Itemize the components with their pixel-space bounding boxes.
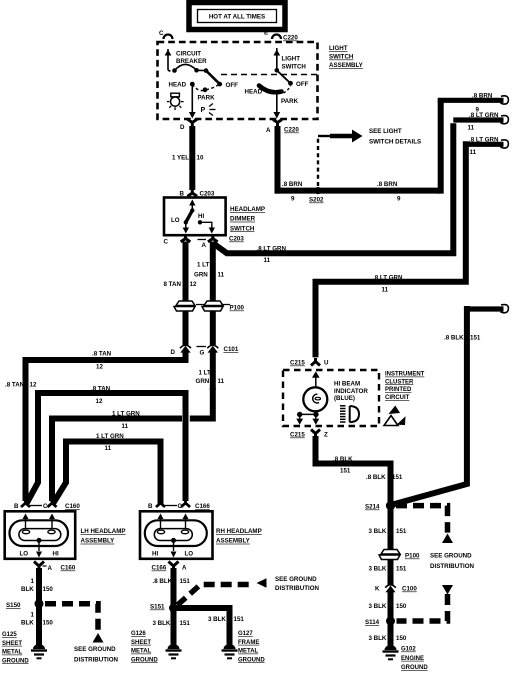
svg-text:SWITCH: SWITCH (282, 64, 307, 71)
svg-text:FRAME: FRAME (238, 640, 259, 646)
svg-text:G102: G102 (401, 647, 416, 653)
printed circuit icon (340, 406, 359, 422)
svg-text:S150: S150 (6, 602, 21, 609)
label LH HEADLAMP ASSEMBLY (81, 528, 126, 545)
svg-text:HEAD: HEAD (169, 82, 187, 89)
svg-text:.8 BRN: .8 BRN (282, 181, 303, 188)
LH headlamp connector B (fork) (14, 500, 30, 510)
svg-text:12: 12 (96, 398, 103, 405)
svg-text:S202: S202 (309, 197, 324, 204)
svg-text:A: A (182, 565, 187, 572)
svg-text:PRINTED: PRINTED (385, 387, 412, 393)
connector A (C203 bottom) (198, 236, 245, 250)
svg-text:OFF: OFF (226, 82, 239, 89)
svg-text:GROUND: GROUND (131, 657, 158, 663)
wire .8 BRN 9 (S202 up to right edge hook) (438, 92, 509, 193)
svg-text:DISTRIBUTION: DISTRIBUTION (275, 585, 320, 592)
connector C (C203 bottom) (164, 236, 191, 246)
svg-text:CLUSTER: CLUSTER (385, 379, 414, 385)
svg-text:1 LT GRN: 1 LT GRN (112, 410, 140, 417)
svg-text:SHEET: SHEET (2, 641, 22, 647)
svg-text:11: 11 (264, 257, 271, 264)
svg-text:A: A (48, 565, 53, 572)
hook terminal (.8 LT GRN upper right) (453, 112, 508, 132)
svg-text:151: 151 (396, 566, 407, 573)
svg-text:METAL: METAL (238, 649, 259, 655)
svg-text:.8 LT GRN: .8 LT GRN (469, 112, 499, 119)
svg-text:11: 11 (218, 378, 225, 385)
svg-text:G127: G127 (238, 631, 253, 637)
grommet P100 (lower) (379, 550, 420, 560)
wire 1 LT GRN (P100 to C101-G) (210, 311, 216, 345)
connector E / C220 (top) (264, 30, 298, 42)
svg-text:K: K (375, 586, 380, 593)
wire 8 BLK 151 (hook down to S214) (391, 306, 481, 505)
svg-text:11: 11 (122, 423, 129, 430)
svg-text:DISTRIBUTION: DISTRIBUTION (74, 657, 119, 664)
svg-text:GRN: GRN (196, 378, 210, 385)
svg-text:.8 LT GRN: .8 LT GRN (257, 246, 287, 253)
LH headlamp assembly box (5, 511, 76, 559)
connector A / C220 (bottom of light switch box) (266, 120, 299, 135)
svg-text:C: C (159, 30, 164, 37)
svg-text:P: P (201, 107, 206, 114)
svg-text:B: B (14, 503, 19, 510)
svg-text:.8 TAN: .8 TAN (5, 382, 25, 389)
svg-text:3 BLK: 3 BLK (369, 566, 387, 573)
svg-text:C160: C160 (61, 565, 76, 572)
light switch HEAD/OFF/PARK (right) (245, 48, 309, 119)
grommet P100 (left pair) (174, 301, 245, 312)
connector B / C203 (180, 190, 215, 198)
svg-text:BLK: BLK (21, 620, 34, 627)
LH headlamp connector C (fork) (30, 500, 80, 510)
svg-text:1 YEL: 1 YEL (172, 155, 189, 162)
svg-text:.8 TAN: .8 TAN (91, 386, 111, 393)
svg-text:151: 151 (340, 468, 351, 475)
dimmer feed switch HEAD/OFF/PARK (left) (169, 82, 239, 119)
hi beam indicator bulb (296, 371, 368, 425)
svg-text:151: 151 (392, 474, 403, 481)
svg-text:C166: C166 (195, 503, 210, 510)
label LIGHT SWITCH ASSEMBLY (329, 45, 364, 69)
park lamp icon (167, 93, 184, 110)
wire 8 TAN 12 (C203-C down to P100) (164, 242, 197, 303)
svg-text:1 LT GRN: 1 LT GRN (96, 433, 124, 440)
svg-text:GROUND: GROUND (238, 657, 265, 663)
dashed run to ground distribution (S214) (396, 506, 475, 570)
svg-text:G: G (200, 350, 205, 357)
svg-text:DISTRIBUTION: DISTRIBUTION (430, 563, 475, 570)
connector C101 pin D (171, 345, 192, 356)
svg-text:C160: C160 (65, 503, 80, 510)
wire .8 LT GRN (hook down, left, down to C215-U) (316, 141, 466, 357)
svg-text:PARK: PARK (281, 98, 299, 105)
dashed run from ground distribution (C100/S114) (397, 585, 454, 621)
svg-text:11: 11 (470, 149, 477, 156)
ground G127 (222, 631, 266, 663)
connector C (top of light switch box) (159, 30, 173, 39)
wire 1 LT GRN 11 (LH headlamp C to RH headlamp B) row4 (53, 433, 161, 504)
svg-text:SWITCH DETAILS: SWITCH DETAILS (369, 139, 421, 146)
svg-text:CIRCUIT: CIRCUIT (385, 395, 410, 401)
svg-text:ASSEMBLY: ASSEMBLY (329, 62, 364, 69)
ESD warning triangles (384, 406, 406, 426)
svg-text:SHEET: SHEET (131, 640, 151, 646)
hook terminal .8 BLK 151 (right edge) (467, 305, 509, 313)
svg-text:.8 LT GRN: .8 LT GRN (373, 275, 403, 282)
connector C215 pin U (290, 358, 329, 367)
svg-text:(BLUE): (BLUE) (334, 395, 355, 402)
svg-text:11: 11 (468, 125, 475, 132)
svg-text:8 TAN: 8 TAN (164, 281, 182, 288)
svg-text:ASSEMBLY: ASSEMBLY (81, 538, 116, 545)
ground G126 (131, 631, 182, 663)
label HEADLAMP DIMMER SWITCH (230, 206, 265, 232)
svg-text:12: 12 (30, 382, 37, 389)
svg-text:PARK: PARK (198, 95, 216, 102)
svg-text:D: D (180, 124, 185, 131)
ground G102 (383, 645, 429, 671)
svg-text:S151: S151 (150, 604, 165, 611)
svg-text:1 LT: 1 LT (197, 262, 209, 269)
svg-text:12: 12 (96, 364, 103, 371)
connector C100 pin K (375, 585, 417, 593)
RH connector A / C166 (bottom) (152, 562, 188, 572)
svg-text:C220: C220 (284, 127, 299, 134)
headlamp dimmer switch U-box (164, 198, 226, 236)
svg-text:ASSEMBLY: ASSEMBLY (216, 538, 251, 545)
svg-text:BLK: BLK (21, 586, 34, 593)
svg-text:LIGHT: LIGHT (329, 45, 348, 52)
wire .8 BRN 9 (C220-A down and right to S202) (275, 126, 441, 203)
svg-text:.8 LT GRN: .8 LT GRN (469, 136, 499, 143)
RH headlamp assembly box (140, 511, 213, 559)
svg-text:1 LT: 1 LT (199, 370, 211, 377)
svg-text:SEE GROUND: SEE GROUND (275, 576, 317, 583)
svg-text:.8 BRN: .8 BRN (472, 92, 493, 99)
svg-text:ENGINE: ENGINE (401, 656, 424, 662)
svg-text:.8 TAN: .8 TAN (92, 351, 112, 358)
svg-text:11: 11 (105, 445, 112, 452)
RH headlamp connector C (fork) (165, 500, 210, 510)
svg-text:C203: C203 (229, 236, 244, 243)
svg-text:3 BLK: 3 BLK (153, 620, 171, 627)
ground G125 (2, 632, 47, 664)
dashed run to ground distribution (S150) (45, 604, 119, 664)
wire 3 BLK 151 (S214 to P100) (369, 506, 407, 549)
svg-text:HI: HI (53, 551, 59, 558)
svg-text:LIGHT: LIGHT (282, 56, 301, 63)
hook terminal .8 LT GRN 11 (third, to instrument cluster) (466, 136, 509, 156)
svg-text:D: D (171, 349, 176, 356)
power feed box HOT AT ALL TIMES (189, 3, 285, 30)
svg-text:HOT AT ALL TIMES: HOT AT ALL TIMES (209, 14, 265, 21)
svg-text:HI BEAM: HI BEAM (334, 380, 360, 387)
svg-text:Z: Z (324, 432, 328, 439)
svg-text:BREAKER: BREAKER (176, 58, 207, 65)
svg-text:151: 151 (234, 616, 245, 623)
label INSTRUMENT CLUSTER PRINTED CIRCUIT (385, 372, 425, 401)
splice S202 (309, 187, 324, 204)
svg-text:METAL: METAL (2, 650, 23, 656)
P indicator icon (201, 104, 216, 116)
svg-text:151: 151 (470, 335, 481, 342)
svg-text:C: C (164, 239, 169, 246)
svg-text:S114: S114 (365, 619, 380, 626)
svg-text:GRN: GRN (194, 272, 208, 279)
wire .8 BLK 151 (C215-Z down right to S214) (316, 436, 403, 506)
wire 1 BLK 150 (S150 to G125) (21, 604, 53, 647)
connector C215 pin Z (290, 430, 328, 439)
svg-text:LO: LO (185, 551, 194, 558)
svg-text:.8 BLK: .8 BLK (333, 456, 353, 463)
svg-text:9: 9 (476, 107, 480, 114)
svg-text:C215: C215 (290, 360, 305, 367)
dashed leader from S202 (318, 136, 330, 186)
svg-text:10: 10 (197, 155, 204, 162)
svg-text:9: 9 (397, 196, 401, 203)
svg-text:LO: LO (171, 217, 180, 224)
svg-text:CIRCUIT: CIRCUIT (176, 51, 201, 58)
RH headlamp connector B (fork) (148, 500, 165, 510)
svg-text:HEADLAMP: HEADLAMP (230, 206, 265, 213)
splice S114 (365, 617, 395, 627)
wire 1 LT GRN 11 (C101-G down) (196, 351, 225, 390)
wire 3 BLK 150 (C100 to S114) (369, 590, 407, 621)
svg-text:9: 9 (291, 196, 295, 203)
svg-text:GROUND: GROUND (401, 665, 428, 671)
svg-text:150: 150 (43, 586, 54, 593)
svg-text:150: 150 (396, 603, 407, 610)
wire 1 LT GRN 11 (C203-A down to P100) (194, 242, 225, 303)
wire .8 TAN 12 (LH headlamp B to RH headlamp C) row2 (27, 386, 186, 504)
svg-text:151: 151 (180, 620, 191, 627)
svg-text:SWITCH: SWITCH (230, 225, 255, 232)
wire 1 LT GRN 11 (C101-G to LH headlamp C) row3 (52, 388, 213, 501)
svg-text:A: A (202, 242, 207, 249)
svg-text:.8 BLK: .8 BLK (444, 335, 464, 342)
svg-text:DIMMER: DIMMER (230, 216, 256, 223)
svg-text:C166: C166 (152, 565, 167, 572)
svg-text:P100: P100 (405, 553, 420, 560)
svg-text:INSTRUMENT: INSTRUMENT (385, 372, 425, 378)
svg-text:E: E (264, 30, 268, 37)
LH connector A / C160 (bottom) (34, 562, 76, 573)
svg-text:HI: HI (198, 213, 204, 220)
dashed run to ground distribution (S151) (178, 576, 320, 605)
svg-text:OFF: OFF (296, 81, 309, 88)
circuit breaker (165, 49, 223, 87)
connector C101 pin G (197, 345, 239, 356)
svg-text:3 BLK: 3 BLK (369, 603, 387, 610)
svg-text:151: 151 (180, 578, 191, 585)
svg-text:151: 151 (396, 528, 407, 535)
svg-text:C220: C220 (283, 35, 298, 42)
svg-text:GROUND: GROUND (2, 658, 29, 664)
svg-text:U: U (324, 360, 329, 367)
svg-text:C215: C215 (290, 432, 305, 439)
svg-text:12: 12 (190, 281, 197, 288)
wire 1 BLK 150 (LH A to S150) (21, 568, 53, 604)
splice S151 (150, 604, 178, 613)
svg-text:1: 1 (31, 612, 35, 619)
svg-text:150: 150 (43, 620, 54, 627)
svg-text:A: A (266, 127, 271, 134)
wire 3 BLK 150 (S114 to G102) (369, 621, 407, 648)
svg-text:SEE GROUND: SEE GROUND (74, 646, 116, 653)
splice S150 (6, 599, 44, 609)
svg-text:.8 BLK: .8 BLK (153, 578, 173, 585)
svg-text:G126: G126 (131, 631, 146, 637)
svg-text:LO: LO (20, 551, 29, 558)
wire .8 TAN 12 (C101-D left and down to LH headlamp B) row1 (5, 350, 186, 501)
svg-text:INDICATOR: INDICATOR (334, 388, 368, 395)
svg-text:.8 BRN: .8 BRN (377, 181, 398, 188)
svg-text:1: 1 (31, 578, 35, 585)
svg-text:HI: HI (152, 551, 158, 558)
splice S214 (365, 501, 395, 511)
svg-text:RH HEADLAMP: RH HEADLAMP (216, 528, 262, 535)
wire 3 BLK 151 (S151 branch to G127) (174, 608, 245, 647)
svg-text:SEE GROUND: SEE GROUND (430, 553, 472, 560)
label RH HEADLAMP ASSEMBLY (216, 528, 262, 545)
instrument cluster dashed box (283, 370, 379, 426)
svg-text:11: 11 (218, 272, 225, 279)
svg-text:C100: C100 (402, 586, 417, 593)
svg-text:B: B (148, 503, 153, 510)
svg-text:SEE LIGHT: SEE LIGHT (369, 128, 402, 135)
svg-text:3 BLK: 3 BLK (208, 616, 226, 623)
connector D (bottom of light switch box) (180, 119, 197, 131)
svg-text:.8 BLK: .8 BLK (366, 474, 386, 481)
wire 8 TAN (P100 to C101-D) (183, 311, 189, 345)
svg-text:11: 11 (382, 287, 389, 294)
svg-text:P100: P100 (230, 305, 245, 312)
svg-text:SWITCH: SWITCH (329, 54, 354, 61)
svg-text:150: 150 (396, 635, 407, 642)
wire 3 BLK 151 (P100 to C100) (369, 559, 407, 585)
svg-text:LH HEADLAMP: LH HEADLAMP (81, 528, 126, 535)
wire 1 YEL 10 (172, 126, 204, 190)
svg-text:G125: G125 (2, 632, 17, 638)
svg-text:S214: S214 (365, 504, 380, 511)
light switch assembly dashed box (158, 42, 318, 119)
svg-text:C101: C101 (224, 346, 239, 353)
wire 3 BLK 151 (S151 to G126) (153, 608, 191, 647)
svg-text:METAL: METAL (131, 649, 152, 655)
svg-text:3 BLK: 3 BLK (369, 528, 387, 535)
svg-text:HEAD: HEAD (245, 89, 263, 96)
wire .8 LT GRN 11 (C203-A branch to right edge) (213, 123, 453, 264)
wire .8 BLK 151 (RH A to S151) (153, 568, 191, 608)
svg-text:3 BLK: 3 BLK (369, 635, 387, 642)
arrow SEE LIGHT SWITCH DETAILS (330, 128, 421, 146)
